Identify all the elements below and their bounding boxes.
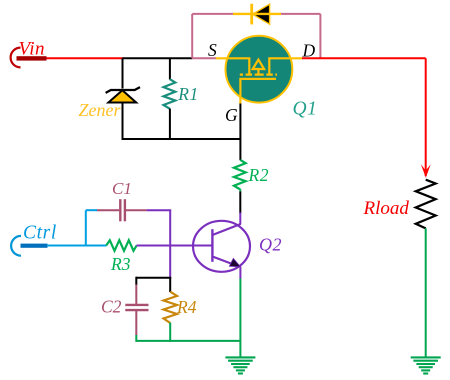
- wire collector purple: [239, 213, 241, 225]
- wire cyan C1 lead: [86, 209, 98, 211]
- resistor R3: [106, 240, 136, 251]
- svg-text:Ctrl: Ctrl: [23, 223, 57, 244]
- wire top black: [123, 57, 193, 59]
- svg-text:Vin: Vin: [19, 39, 45, 60]
- svg-text:C2: C2: [101, 297, 122, 317]
- capacitor C1: [97, 199, 147, 221]
- svg-text:Zener: Zener: [79, 100, 122, 120]
- transistor Q2: [193, 221, 250, 272]
- wire gate black: [239, 104, 241, 161]
- resistor Rload: [416, 180, 436, 229]
- MOSFET Q1: [216, 36, 303, 104]
- wire emitter green: [239, 279, 241, 358]
- zener diode lead bottom: [122, 103, 124, 141]
- wire cyan up to C1: [85, 210, 87, 245]
- wire emitter purple: [239, 267, 241, 280]
- resistor R4: [164, 292, 178, 323]
- wire purple C1 lead: [147, 209, 172, 211]
- svg-text:C1: C1: [112, 179, 132, 198]
- wire Vin red: [47, 57, 124, 59]
- wire Ctrl cyan: [47, 245, 107, 247]
- svg-text:Q1: Q1: [293, 99, 318, 120]
- svg-text:S: S: [208, 40, 217, 60]
- wire D to Rload red with arrow: [302, 58, 431, 178]
- wire green C2 bottom: [135, 335, 137, 342]
- ground right: [411, 357, 441, 373]
- wire bottom of zener/R1: [123, 138, 241, 140]
- wire below R2: [239, 191, 241, 213]
- svg-text:G: G: [225, 105, 238, 125]
- diode D1 (body-parallel diode): [233, 4, 281, 25]
- wire purple base: [136, 245, 212, 247]
- svg-text:R1: R1: [177, 84, 198, 104]
- wire pink loop left: [191, 14, 193, 58]
- zener diode ZD1: [106, 87, 140, 102]
- zener diode lead top: [122, 58, 124, 88]
- resistor R1 lead bottom: [169, 109, 171, 140]
- wire Rload to ground green: [425, 228, 427, 357]
- wire pink loop top-right: [280, 13, 320, 15]
- wire pink loop right: [319, 14, 321, 58]
- capacitor C2: [125, 285, 148, 336]
- svg-text:Q2: Q2: [259, 235, 282, 255]
- wire purple vertical: [169, 210, 171, 278]
- svg-text:R2: R2: [248, 165, 269, 185]
- port Ctrl connector: [11, 236, 47, 256]
- port Vin connector: [11, 48, 47, 68]
- ground left: [225, 357, 255, 373]
- wire green R4 bottom: [169, 323, 171, 342]
- svg-text:R3: R3: [110, 254, 131, 274]
- wire green bottom: [136, 340, 240, 342]
- wire black elbow to C2/R4: [136, 277, 171, 292]
- wire below R2 green stub: [239, 189, 241, 191]
- wire pink loop top-left: [192, 13, 234, 15]
- svg-text:Rload: Rload: [363, 198, 410, 219]
- resistor R1 lead top: [169, 58, 171, 79]
- resistor R1: [164, 79, 176, 109]
- resistor R2: [234, 160, 246, 190]
- svg-text:R4: R4: [176, 297, 197, 317]
- wire S pink: [192, 57, 216, 59]
